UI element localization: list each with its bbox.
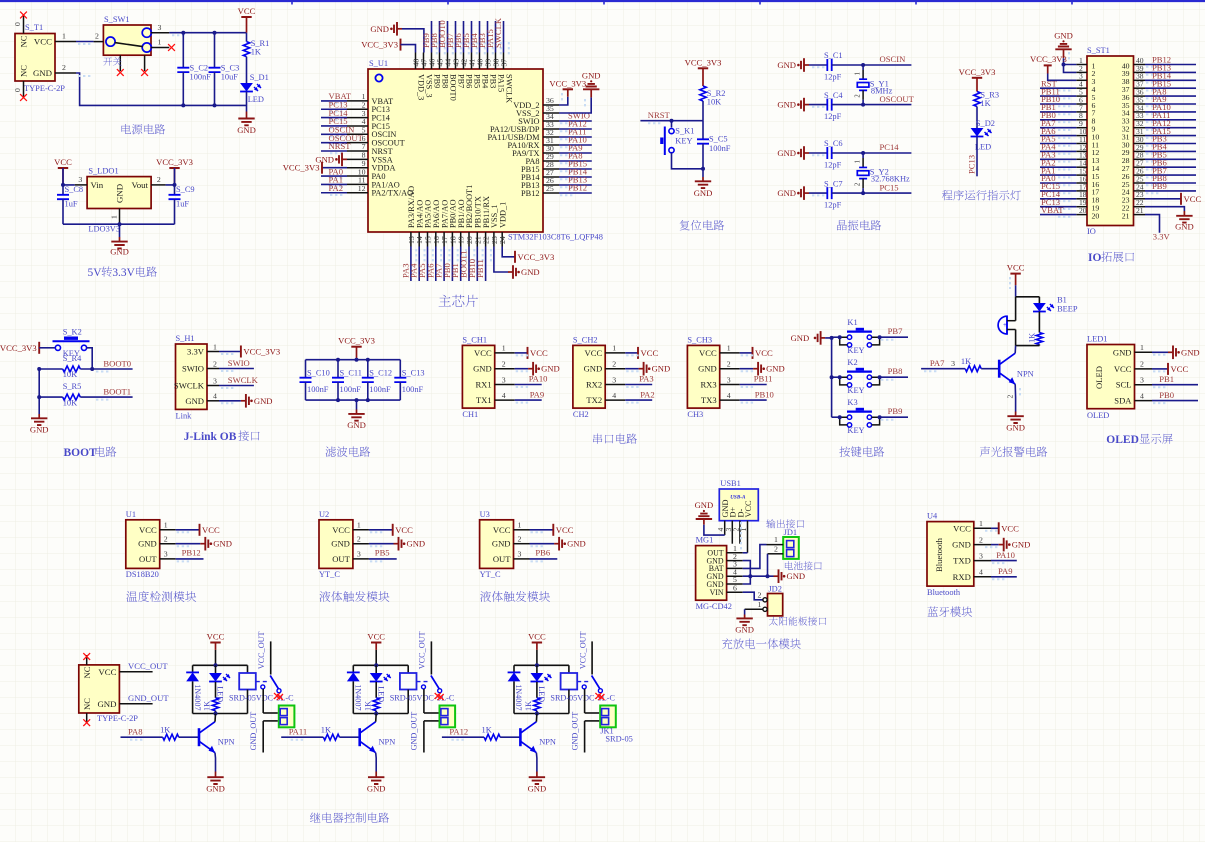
wire T1.GND to bottom rail (76, 73, 247, 105)
svg-text:S_C2: S_C2 (190, 64, 209, 73)
label 电池接口 (785, 561, 822, 570)
net PB1 (IO left) (1040, 102, 1076, 114)
wire GND_OUT (relay) (570, 712, 599, 753)
svg-text:VCC: VCC (1114, 364, 1132, 374)
svg-text:TX1: TX1 (476, 395, 492, 405)
svg-text:GND: GND (582, 71, 601, 81)
net PB9 (878, 406, 908, 420)
svg-text:VCC: VCC (493, 525, 511, 535)
svg-text:4: 4 (1140, 391, 1144, 400)
net PA10 (515, 374, 548, 387)
svg-text:IO: IO (1088, 252, 1101, 264)
svg-text:PA2: PA2 (329, 183, 344, 193)
svg-text:12: 12 (358, 184, 366, 193)
net VBAT (IO left) (1040, 205, 1076, 217)
net PB10 (740, 389, 774, 402)
svg-text:S_T1: S_T1 (25, 23, 43, 32)
wire alarm bottom (1016, 345, 1040, 347)
module MG1 MG-CD42 (696, 536, 743, 611)
svg-text:GND: GND (567, 539, 586, 549)
power port VCC_3V3 (IO pin3) (1030, 54, 1076, 80)
connector JK1 (600, 706, 633, 744)
svg-text:2: 2 (1005, 395, 1014, 399)
net OSCOUT (863, 94, 915, 105)
svg-text:GND: GND (1012, 540, 1031, 550)
svg-text:21: 21 (1136, 206, 1144, 215)
connector S_CH3 (687, 335, 739, 419)
svg-text:PA9: PA9 (998, 566, 1013, 576)
svg-text:PB9: PB9 (1152, 181, 1167, 191)
svg-text:1: 1 (774, 535, 778, 544)
svg-text:2: 2 (502, 360, 506, 369)
power port VCC_3V3 (reset) (685, 57, 722, 86)
wire GND5 (743, 576, 751, 584)
svg-text:GND: GND (584, 364, 603, 374)
svg-text:PC13: PC13 (967, 155, 977, 174)
svg-text:1: 1 (855, 160, 862, 163)
svg-text:DS18B20: DS18B20 (126, 570, 159, 579)
svg-text:VCC: VCC (528, 632, 546, 642)
resistor S_R2 10K (700, 86, 726, 121)
wire Vout (166, 168, 177, 187)
title 晶振电路 (837, 220, 881, 230)
svg-text:OLED: OLED (1106, 434, 1139, 446)
svg-text:S_C7: S_C7 (824, 179, 843, 188)
svg-text:25: 25 (546, 184, 554, 193)
svg-text:PA10: PA10 (529, 374, 548, 384)
svg-text:1K: 1K (980, 99, 990, 108)
svg-text:S_C1: S_C1 (824, 51, 843, 60)
diode 1N4007 (186, 665, 202, 713)
svg-text:20: 20 (1079, 206, 1087, 215)
wire emitter (relay) (375, 753, 378, 772)
svg-text:S_C9: S_C9 (176, 185, 195, 194)
net PB12 (IO right) (1145, 55, 1196, 67)
svg-text:PB11: PB11 (754, 374, 773, 384)
diode 1N4007 (347, 665, 363, 713)
power port VCC_3V3 (filter) (338, 336, 375, 360)
capacitor S_C9 1uF (169, 185, 195, 224)
svg-text:VCC: VCC (139, 525, 157, 535)
svg-text:GND: GND (766, 364, 785, 374)
svg-text:4: 4 (979, 568, 983, 577)
module U1 DS18B20 (126, 510, 176, 579)
svg-text:1: 1 (1140, 343, 1144, 352)
svg-text:GND: GND (777, 100, 796, 110)
svg-text:VCC: VCC (1007, 263, 1025, 273)
net PB0 (IO left) (1040, 110, 1076, 122)
svg-text:NC: NC (19, 35, 29, 47)
svg-text:VCC: VCC (1001, 523, 1019, 533)
net SWIO (559, 111, 592, 124)
net PB9 (IO right) (1145, 181, 1196, 193)
svg-text:LED1: LED1 (1087, 335, 1107, 344)
svg-text:VCC: VCC (744, 500, 753, 518)
net PA15 (485, 21, 501, 55)
title 蓝牙模块 (928, 606, 973, 616)
svg-text:VCC: VCC (202, 525, 220, 535)
svg-text:VCC: VCC (755, 348, 773, 358)
svg-text:2: 2 (855, 94, 862, 98)
title 串口电路 (593, 433, 637, 443)
svg-text:BEEP: BEEP (1057, 305, 1078, 314)
svg-text:PA11: PA11 (289, 726, 307, 736)
power port GND (CH2) (625, 362, 670, 376)
svg-text:TYPE-C-2P: TYPE-C-2P (97, 714, 138, 723)
svg-text:GND: GND (33, 68, 52, 78)
relay contact VCC_OUT (256, 631, 281, 698)
wire relay top rail (193, 663, 248, 667)
svg-text:S_K1: S_K1 (675, 127, 694, 136)
svg-text:OUT: OUT (139, 554, 157, 564)
net PB12 (176, 548, 204, 562)
svg-text:VDD_1: VDD_1 (498, 202, 507, 228)
svg-text:VCC_3V3: VCC_3V3 (0, 343, 37, 353)
svg-text:SWCLK: SWCLK (174, 381, 205, 391)
relay contact VCC_OUT (417, 631, 442, 698)
net PA7 (921, 358, 965, 371)
wire relay bottom rail (193, 712, 248, 716)
net PB11 (IO left) (1040, 86, 1076, 98)
ground GND (IO pins 1,2) (1054, 31, 1076, 73)
svg-text:CH2: CH2 (573, 410, 589, 419)
resistor S_R3 1K (974, 91, 999, 129)
svg-text:JD2: JD2 (768, 585, 782, 594)
svg-text:GND: GND (370, 24, 389, 34)
svg-text:1: 1 (357, 521, 361, 530)
svg-text:3: 3 (518, 550, 522, 559)
capacitor S_C7 12pF (809, 179, 863, 209)
junction (181, 103, 216, 107)
title 电源电路 (122, 124, 166, 134)
svg-text:2: 2 (758, 590, 762, 599)
net VBAT (321, 91, 352, 103)
net PB9 (421, 21, 437, 55)
title 继电器控制电路 (310, 812, 389, 822)
title 主芯片 (439, 295, 478, 307)
svg-text:PB0: PB0 (1159, 390, 1174, 400)
power port VCC_3V3 (LDO out) (156, 157, 193, 185)
svg-text:GND: GND (777, 148, 796, 158)
net PB6 (453, 21, 469, 55)
net PC13 (321, 99, 348, 111)
net PB4 (IO right) (1145, 142, 1196, 154)
net SWCLK (493, 17, 509, 55)
led S_D1 (240, 57, 269, 104)
svg-text:VCC_OUT: VCC_OUT (578, 631, 587, 669)
net NRST (640, 110, 703, 123)
net PA7 (IO left) (1040, 118, 1076, 130)
svg-text:PB10: PB10 (755, 389, 774, 399)
title OLED显示屏 (1106, 434, 1172, 446)
net PB0 (442, 247, 458, 282)
crystal S_Y1 8MHz (855, 65, 893, 105)
net PB11 (475, 247, 491, 282)
svg-text:S_C4: S_C4 (824, 91, 843, 100)
svg-text:VCC: VCC (34, 37, 52, 47)
svg-text:VCC: VCC (699, 348, 717, 358)
title J-Link OB接口 (184, 430, 260, 443)
power port GND (U2) (369, 537, 425, 551)
svg-text:GND_OUT: GND_OUT (570, 712, 579, 751)
svg-text:GND: GND (473, 364, 492, 374)
key S_K1 (662, 121, 703, 169)
title 程序运行指示灯 (942, 190, 1021, 200)
resistor S_R4 10K (39, 354, 82, 379)
net PB15 (IO right) (1145, 78, 1196, 90)
svg-text:GND_OUT: GND_OUT (410, 712, 419, 751)
title IO拓展口 (1088, 252, 1134, 264)
svg-text:GND: GND (694, 188, 713, 198)
svg-text:GND: GND (787, 571, 806, 581)
net PC14 (321, 108, 348, 120)
svg-text:S_ST1: S_ST1 (1087, 46, 1110, 55)
svg-text:GND: GND (367, 784, 386, 794)
svg-text:SRD-05VDC-SL-C: SRD-05VDC-SL-C (229, 694, 294, 703)
svg-text:GND: GND (521, 267, 540, 277)
wire GND2 (743, 561, 751, 577)
svg-text:2: 2 (164, 535, 168, 544)
svg-text:VCC_3V3: VCC_3V3 (685, 57, 722, 67)
svg-text:S_U1: S_U1 (369, 59, 388, 68)
svg-text:S_D2: S_D2 (976, 119, 995, 128)
svg-text:U1: U1 (126, 510, 136, 519)
svg-text:3: 3 (213, 376, 217, 385)
ground GND (filter) (347, 400, 366, 430)
title BOOT电路 (64, 446, 117, 459)
power port GND (U1) (176, 537, 232, 551)
power port VCC (238, 6, 256, 33)
svg-text:1K: 1K (482, 725, 492, 734)
net PA3 (IO left) (1040, 150, 1076, 162)
svg-text:VCC: VCC (530, 348, 548, 358)
svg-text:YT_C: YT_C (319, 570, 340, 579)
svg-text:PA10: PA10 (996, 550, 1015, 560)
power port GND (S_C6) (777, 146, 809, 160)
svg-text:VCC_3V3: VCC_3V3 (156, 157, 193, 167)
svg-text:GND: GND (791, 333, 810, 343)
svg-text:PB9: PB9 (432, 74, 441, 88)
display LED1 OLED (1087, 335, 1152, 420)
net BOOT1 (80, 387, 132, 400)
connector None (279, 706, 295, 728)
net PA11 (559, 127, 592, 140)
capacitor S_C13 100nF (394, 360, 424, 400)
transistor NPN (alarm) (999, 346, 1033, 385)
wire BAT to JD1.1 (743, 545, 767, 569)
svg-text:K2: K2 (847, 358, 857, 367)
svg-text:NPN: NPN (1017, 370, 1034, 379)
svg-text:SDA: SDA (1114, 396, 1132, 406)
svg-text:100nF: 100nF (369, 385, 391, 394)
svg-text:2: 2 (612, 360, 616, 369)
net OSCOUT (321, 133, 364, 145)
svg-text:GND: GND (347, 420, 366, 430)
mcu S_U1 STM32F103C8T6_LQFP48 (347, 53, 603, 247)
svg-text:PA15: PA15 (496, 74, 505, 92)
svg-text:GND: GND (407, 539, 426, 549)
capacitor S_C4 12pF (809, 91, 863, 121)
ground GND (237, 92, 256, 136)
svg-text:3.3V: 3.3V (187, 347, 205, 357)
svg-text:GND: GND (952, 540, 971, 550)
svg-text:2: 2 (518, 535, 522, 544)
net PA5 (417, 247, 433, 282)
svg-text:S_R2: S_R2 (707, 89, 726, 98)
svg-text:SWCLK: SWCLK (228, 375, 259, 385)
title 液体触发模块 (319, 591, 389, 602)
led relay (209, 665, 230, 702)
junction (861, 191, 865, 195)
title 声光报警电路 (980, 446, 1048, 456)
svg-text:20: 20 (1092, 211, 1100, 220)
led relay (370, 665, 391, 702)
svg-text:GND: GND (777, 188, 796, 198)
svg-text:U3: U3 (480, 510, 490, 519)
power port VCC_3V3 (VDDA) (283, 162, 347, 174)
svg-text:VIN: VIN (710, 588, 724, 597)
resistor S_R5 10K (39, 382, 81, 407)
svg-text:VDD_3: VDD_3 (416, 74, 425, 100)
junction (861, 103, 865, 107)
net PA6 (IO left) (1040, 126, 1076, 138)
svg-text:GND: GND (735, 624, 754, 634)
svg-text:VCC_3V3: VCC_3V3 (338, 336, 375, 346)
svg-text:1: 1 (502, 344, 506, 353)
svg-text:2: 2 (979, 535, 983, 544)
svg-text:S_C12: S_C12 (369, 368, 392, 377)
svg-text:NPN: NPN (539, 738, 556, 747)
net PC14 (863, 142, 911, 153)
connector S_CH1 (462, 335, 514, 419)
net PB11 (740, 374, 773, 387)
svg-text:S_SW1: S_SW1 (104, 15, 130, 24)
power port GND (S_C7) (777, 186, 809, 200)
svg-text:+: + (1003, 321, 1007, 329)
wire relay top rail (353, 663, 408, 667)
svg-text:SWCLK: SWCLK (493, 17, 503, 48)
power port VCC (relay PA11) (367, 632, 385, 666)
net PA4 (409, 247, 425, 282)
svg-text:1: 1 (164, 521, 168, 530)
regulator S_LDO1 LDO3V3 (75, 167, 166, 234)
net PB14 (559, 167, 592, 180)
svg-text:J-Link OB: J-Link OB (184, 431, 237, 443)
svg-text:GND: GND (528, 784, 547, 794)
svg-text:GND: GND (185, 396, 204, 406)
net PB1 (450, 247, 466, 282)
net PC13 (IO left) (1040, 197, 1076, 209)
capacitor S_C11 100nF (332, 360, 362, 400)
svg-text:U4: U4 (927, 512, 938, 521)
net PA0 (IO left) (1040, 173, 1076, 185)
svg-text:3: 3 (502, 375, 506, 384)
crystal S_Y2 32.768KHz (855, 153, 910, 193)
svg-text:KEY: KEY (675, 137, 692, 146)
net BOOT1 (459, 247, 475, 282)
wire emitter (relay) (214, 753, 217, 772)
svg-text:100nF: 100nF (709, 144, 731, 153)
wire keys rail (825, 336, 834, 417)
ground GND (110, 224, 129, 256)
title 5V转3.3V电路 (88, 266, 157, 279)
svg-text:VCC: VCC (98, 667, 116, 677)
title 复位电路 (680, 220, 725, 230)
resistor 1K (relay) (363, 682, 379, 714)
svg-text:NC: NC (82, 698, 92, 710)
svg-text:3: 3 (78, 175, 82, 184)
net PB13 (IO right) (1145, 63, 1196, 75)
svg-text:2: 2 (727, 360, 731, 369)
power port GND (VSS_2) (559, 71, 601, 114)
net PA11 (IO right) (1145, 110, 1196, 122)
transistor NPN (relay) (199, 714, 235, 753)
power port GND (VSSA) (315, 153, 347, 167)
net PA12 (442, 726, 484, 739)
power port VCC (relay PA12) (528, 632, 546, 666)
svg-text:PB1: PB1 (1159, 374, 1174, 384)
svg-text:VCC: VCC (1184, 194, 1202, 204)
svg-text:GND: GND (110, 247, 129, 257)
svg-text:BOOT1: BOOT1 (103, 387, 131, 397)
net PB4 (469, 21, 485, 55)
svg-text:PB7: PB7 (888, 326, 904, 336)
net PA5 (IO left) (1040, 134, 1076, 146)
svg-text:GND: GND (331, 539, 350, 549)
net PB6 (IO right) (1145, 157, 1196, 169)
svg-text:PB12: PB12 (182, 548, 201, 558)
resistor 1K (base) (961, 357, 999, 372)
transistor NPN (relay) (520, 714, 556, 753)
wire emitter (relay) (535, 753, 538, 772)
svg-text:2: 2 (357, 535, 361, 544)
svg-text:6: 6 (733, 583, 737, 592)
svg-text:LED: LED (248, 95, 264, 104)
net PA0 (321, 166, 347, 178)
svg-text:1: 1 (758, 600, 762, 609)
key K1 (832, 318, 880, 355)
power port VCC (bt) (985, 522, 1019, 534)
net PA8 (121, 726, 163, 739)
svg-text:GND: GND (115, 184, 125, 203)
svg-text:1: 1 (518, 521, 522, 530)
svg-text:VCC: VCC (585, 348, 603, 358)
net PA1 (321, 175, 347, 187)
svg-text:GND: GND (237, 125, 256, 135)
net PC15 (863, 182, 911, 193)
ground GND (solar) (735, 609, 754, 634)
svg-text:S_D1: S_D1 (250, 73, 269, 82)
svg-text:8MHz: 8MHz (871, 86, 893, 95)
net PA11 (281, 726, 323, 739)
svg-text:VCC_OUT: VCC_OUT (257, 631, 266, 669)
svg-text:K3: K3 (847, 398, 857, 407)
relay coil SRD-05VDC-SL-C (390, 665, 455, 713)
power port GND (bt) (985, 538, 1030, 552)
connector JD2 (745, 585, 783, 616)
svg-text:3.3V: 3.3V (1153, 232, 1171, 242)
power port VCC (oled) (1152, 363, 1188, 375)
power port VCC (IO pin23) (1145, 193, 1201, 205)
wire relay top rail (514, 663, 569, 667)
led S_D2 (971, 119, 995, 152)
wire relay common (424, 689, 439, 713)
svg-text:VCC: VCC (556, 525, 574, 535)
junction (701, 167, 705, 171)
svg-text:PC14: PC14 (880, 142, 900, 152)
junction (670, 119, 674, 123)
svg-text:1: 1 (62, 32, 66, 41)
